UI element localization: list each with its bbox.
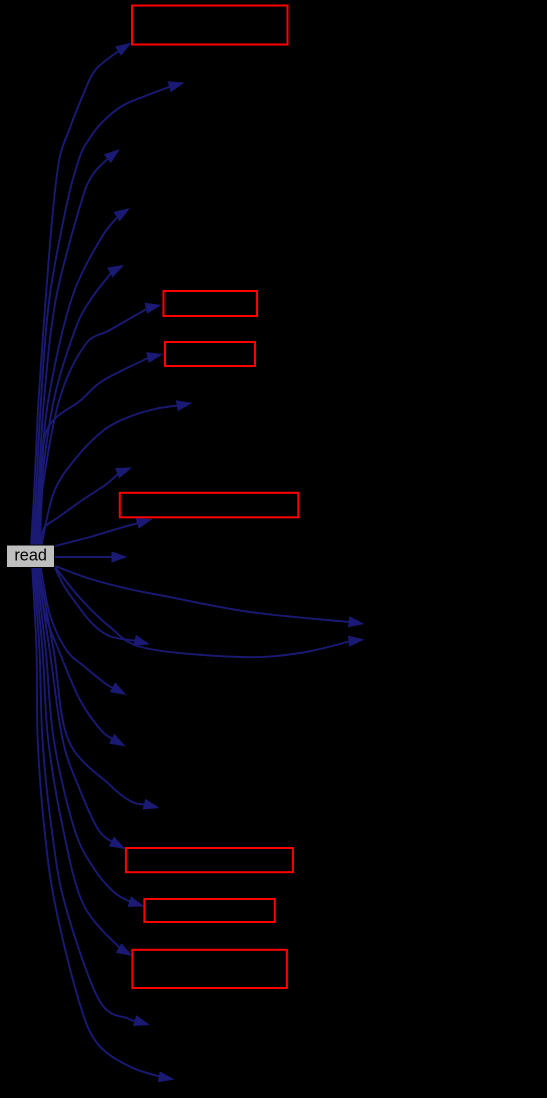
wire edge e11 xyxy=(55,551,128,562)
wire edge e16 xyxy=(39,567,125,747)
wire edge e4 xyxy=(36,208,131,545)
node read (current function) xyxy=(7,545,55,568)
wire edge e12 xyxy=(55,566,365,627)
wire edge e20 xyxy=(35,567,133,956)
wire edge e17 xyxy=(38,567,159,810)
wire edge e1 xyxy=(31,43,132,546)
node b3 (red link box) xyxy=(165,342,255,366)
node b5 (red link box) xyxy=(126,848,293,872)
node b4 (red link box) xyxy=(120,493,298,518)
wire edge e22 xyxy=(32,567,174,1082)
wire edge e7 xyxy=(40,352,163,545)
node b7 (red link box) xyxy=(132,950,287,988)
node b2 (red link box) xyxy=(164,291,258,316)
wire edge e19 xyxy=(36,567,145,907)
node b1 (red link box) xyxy=(132,6,288,45)
wire edge e8 xyxy=(42,400,193,545)
wire edge e6 xyxy=(39,303,162,545)
wire edge e13 xyxy=(55,567,365,657)
svg-text:read: read xyxy=(14,547,47,565)
wire edge e10 xyxy=(55,518,153,546)
node b6 (red link box) xyxy=(144,899,274,922)
wire edge e9 xyxy=(42,468,132,546)
wire edge e18 xyxy=(37,567,126,849)
wire edge e2 xyxy=(33,81,185,545)
wire edge e15 xyxy=(41,567,127,695)
wire edge e3 xyxy=(34,149,120,545)
wire edge e14 xyxy=(55,568,150,646)
wire edge e5 xyxy=(37,265,124,545)
wire edge e21 xyxy=(33,567,150,1026)
